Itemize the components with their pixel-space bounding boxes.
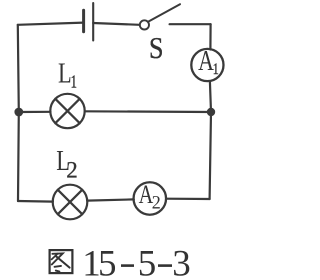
wire node A to L1	[19, 111, 51, 113]
svg-text:2: 2	[66, 158, 78, 183]
wire battery to switch	[93, 23, 139, 25]
wire right bus top to A1	[209, 24, 211, 49]
svg-text:5: 5	[138, 243, 157, 280]
wire L2 to A2	[87, 199, 134, 200]
wire L1 to node B	[85, 110, 211, 113]
ammeter A1 circle	[191, 49, 223, 81]
wire bottom-left corner to L2	[18, 200, 53, 203]
svg-text:2: 2	[152, 192, 161, 214]
wire switch to top-right corner	[170, 23, 211, 25]
svg-text:1: 1	[213, 61, 219, 79]
label A1	[198, 46, 214, 76]
label L2	[56, 146, 70, 177]
battery B1 short plate	[82, 10, 85, 32]
label L1	[58, 58, 72, 89]
wire A1 to node B	[210, 81, 211, 112]
lamp L1 circle	[50, 94, 84, 128]
wire right bus node B to bottom-right corner	[210, 112, 211, 199]
lamp L2 circle	[53, 185, 88, 220]
label S	[149, 31, 164, 65]
lamp L2 cross	[58, 190, 82, 214]
node A junction dot	[14, 108, 23, 117]
svg-text:1: 1	[71, 72, 77, 92]
ammeter A2 circle	[134, 182, 167, 215]
wire A2 to bottom-right corner	[166, 198, 209, 201]
lamp L1 cross	[55, 99, 79, 123]
switch S lever	[148, 4, 180, 21]
svg-text:A: A	[198, 46, 214, 76]
switch S pivot circle	[140, 20, 149, 29]
svg-text:S: S	[149, 31, 164, 65]
svg-text:3: 3	[172, 243, 191, 280]
wire top-left horizontal	[18, 23, 84, 25]
wire left bus vertical	[18, 25, 19, 201]
label A2	[139, 181, 154, 210]
node B junction dot	[207, 108, 215, 116]
svg-text:5: 5	[98, 243, 117, 280]
caption hanzi "图" drawn as strokes	[50, 250, 73, 273]
battery B1 long plate	[92, 3, 94, 41]
svg-text:L: L	[58, 58, 72, 89]
